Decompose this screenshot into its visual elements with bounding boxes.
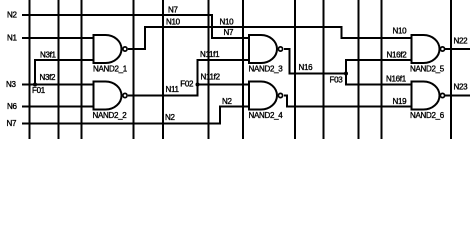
svg-text:N16: N16	[299, 63, 314, 72]
svg-text:N7: N7	[7, 119, 17, 128]
svg-text:N11f2: N11f2	[201, 73, 221, 82]
svg-text:F02: F02	[180, 80, 194, 89]
svg-text:N1: N1	[7, 34, 17, 43]
svg-text:N11f1: N11f1	[200, 50, 220, 59]
svg-text:N10: N10	[166, 18, 181, 27]
svg-text:NAND2_4: NAND2_4	[249, 111, 284, 120]
svg-text:N7: N7	[224, 28, 234, 37]
svg-text:N16f1: N16f1	[386, 75, 407, 84]
svg-text:NAND2_3: NAND2_3	[249, 65, 284, 74]
svg-text:N2: N2	[165, 113, 175, 122]
svg-text:NAND2_2: NAND2_2	[93, 111, 128, 120]
svg-text:N19: N19	[393, 97, 408, 106]
svg-text:N3: N3	[6, 80, 16, 89]
svg-text:N23: N23	[454, 83, 469, 92]
svg-text:N2: N2	[222, 97, 232, 106]
svg-text:F03: F03	[330, 75, 344, 84]
svg-text:N3f1: N3f1	[40, 51, 57, 60]
svg-text:N6: N6	[7, 102, 17, 111]
svg-text:NAND2_6: NAND2_6	[410, 111, 445, 120]
svg-text:N7: N7	[168, 6, 178, 15]
svg-text:N10: N10	[220, 18, 235, 27]
svg-text:N11: N11	[166, 85, 180, 94]
svg-text:N10: N10	[393, 27, 408, 36]
svg-text:F01: F01	[32, 86, 46, 95]
svg-text:NAND2_5: NAND2_5	[410, 65, 445, 74]
svg-text:N2: N2	[7, 11, 17, 20]
svg-text:N22: N22	[454, 37, 469, 46]
svg-text:N3f2: N3f2	[40, 73, 57, 82]
svg-text:NAND2_1: NAND2_1	[93, 65, 128, 74]
svg-text:N16f2: N16f2	[387, 51, 408, 60]
